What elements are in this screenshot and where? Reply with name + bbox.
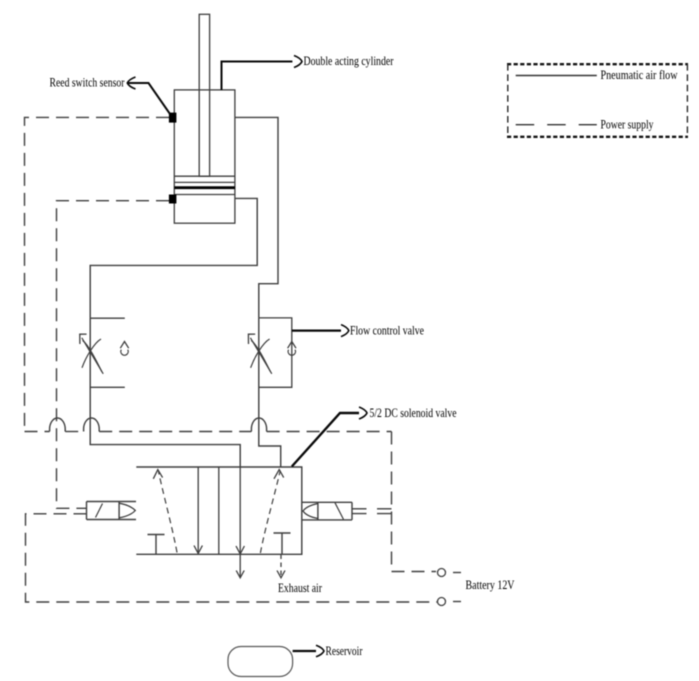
reed switch sensor 2 (black block) [169, 195, 177, 204]
svg-text:5/2 DC solenoid valve: 5/2 DC solenoid valve [370, 406, 457, 420]
battery terminal lower [438, 598, 446, 606]
wire hop over pneumatic line at x=259 [251, 418, 266, 432]
solenoid valve blocked port T left [148, 535, 165, 555]
flow control valve left : throttle arcs [82, 339, 101, 368]
battery terminal upper [438, 569, 446, 577]
flow control valve left : adjustment arrow [82, 338, 103, 374]
solenoid valve position divider [218, 467, 220, 555]
label pointer 5/2 DC solenoid valve [292, 413, 359, 467]
piston line 2 [174, 181, 235, 183]
wire left flow valve to solenoid valve supply [90, 318, 240, 467]
reservoir capsule [228, 647, 293, 677]
svg-text:Reed switch sensor: Reed switch sensor [50, 76, 126, 90]
flow control valve left : bottom port line [90, 386, 125, 388]
wire reed-switch-1 to power line (dashed) [25, 117, 170, 431]
cylinder piston rod [199, 14, 209, 176]
piston line 3 [174, 194, 235, 196]
svg-text:Reservoir: Reservoir [326, 644, 364, 658]
wire power supply horizontal run (dashed) [25, 431, 392, 433]
wire right power drop to battery terminal (dashed) [392, 432, 437, 572]
reed switch sensor 1 (black block) [169, 113, 177, 123]
svg-text:Pneumatic air flow: Pneumatic air flow [601, 68, 679, 82]
solenoid coil left [87, 502, 137, 520]
wire cylinder lower port to left flow valve (pneumatic) [90, 198, 257, 318]
flow control valve right : throttle arcs [251, 339, 270, 368]
exhaust arrow solid below valve [239, 555, 241, 578]
legend box [507, 64, 688, 137]
flow control valve right : body box [259, 318, 292, 387]
piston thick seal line [174, 186, 235, 189]
legend dashed sample line [516, 124, 597, 126]
solenoid valve dashed path left (energized) [158, 471, 177, 553]
svg-text:Exhaust air: Exhaust air [278, 581, 323, 595]
label pointer Reservoir [293, 650, 316, 652]
label pointer Double acting cylinder [222, 62, 293, 90]
wire cylinder upper port to right flow valve (pneumatic) [235, 117, 278, 318]
svg-text:Power supply: Power supply [601, 117, 654, 131]
flow control valve left : top port line [90, 317, 125, 319]
solenoid pilot triangle right [303, 504, 318, 519]
cylinder body [174, 90, 235, 223]
svg-text:Battery 12V: Battery 12V [466, 578, 516, 592]
wire right solenoid leads (broken double line) [352, 509, 392, 514]
label pointer Flow control valve [292, 330, 341, 332]
flow control valve right : check valve seat and ball [288, 342, 296, 349]
solenoid valve blocked port T right [274, 533, 291, 555]
flow control valve right : adjustment arrow [250, 338, 271, 374]
wire left solenoid return to battery (dashed) [26, 514, 438, 602]
svg-text:Flow control valve: Flow control valve [350, 324, 424, 338]
flow control valve left : check valve seat and ball [120, 342, 128, 349]
solenoid valve 5/2 body [136, 467, 301, 554]
solenoid valve flow path down-arrow 2 (supply through) [239, 467, 241, 555]
legend solid sample line [516, 75, 597, 77]
wire hop over dashed vertical at x=57 [50, 418, 66, 431]
solenoid coil right [302, 502, 353, 520]
piston line 1 [174, 175, 235, 177]
solenoid pilot triangle left [119, 503, 135, 518]
wire right flow valve to solenoid valve port [259, 318, 281, 467]
svg-text:Double acting cylinder: Double acting cylinder [304, 54, 395, 68]
solenoid valve flow path down-arrow 1 [197, 467, 199, 554]
wire reed-switch-2 to left solenoid (dashed) [57, 201, 170, 509]
wire hop over pneumatic line at x=90 [84, 418, 100, 432]
solenoid valve dashed path right (energized) [260, 471, 280, 554]
exhaust arrow dashed below valve [280, 555, 282, 577]
